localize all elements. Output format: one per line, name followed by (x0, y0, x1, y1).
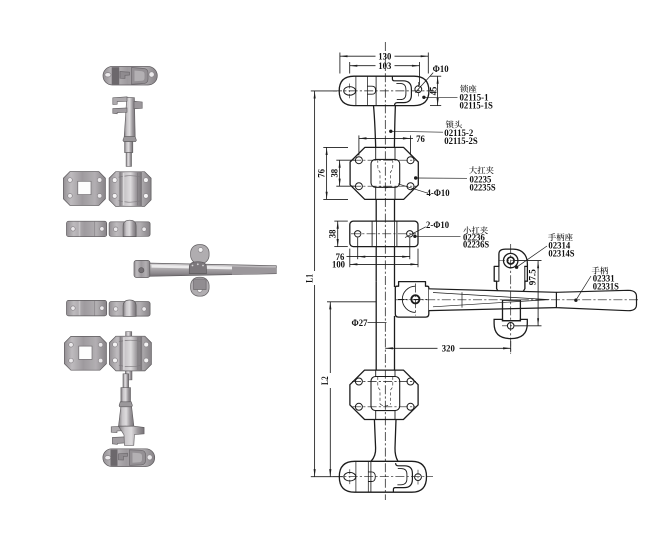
dimension 45 (429, 76, 442, 105)
big clamp plate 02235 (3D, upper left) (63, 172, 105, 206)
rod stub below lower big clamp (125, 370, 132, 380)
lock head 02115-2 (3D view, top) (113, 97, 142, 167)
dimension 130 (340, 52, 428, 74)
dimension 76 (left, clamp height) (316, 147, 348, 199)
label 4-Phi10 (398, 184, 450, 198)
svg-text:Φ27: Φ27 (352, 318, 368, 328)
svg-text:2-Φ10: 2-Φ10 (426, 220, 450, 230)
dimension L2 (320, 302, 376, 477)
centrelines (333, 91, 434, 477)
hidden lines in clamps (378, 160, 393, 406)
label Phi10 (top hole) (415, 64, 449, 93)
label lock head top (389, 120, 478, 145)
svg-text:L2: L2 (320, 376, 330, 385)
handle seat strap over shaft (503, 300, 521, 321)
mounting holes (344, 82, 422, 485)
handle 02331 with handle seat 02314 (3D view) (134, 245, 276, 297)
big clamp saddle 02235 (3D, upper right) (109, 172, 151, 207)
small clamp saddle 02236 (3D, lower right) (109, 300, 150, 316)
svg-text:130: 130 (378, 52, 391, 62)
big clamp plate 02235 (3D, lower left) (64, 336, 106, 370)
svg-text:02115-2S: 02115-2S (444, 136, 477, 146)
small clamp strap 02236 (3D, upper left) (67, 221, 107, 237)
handle shaft and grip (429, 289, 637, 311)
handle seat 02314 (front view) (494, 249, 527, 295)
dimension 100 (332, 249, 418, 270)
svg-text:100: 100 (332, 260, 345, 270)
rod centreline (384, 42, 386, 500)
label handle seat (515, 233, 575, 269)
svg-text:4-Φ10: 4-Φ10 (427, 188, 451, 198)
dimension 320 (385, 341, 510, 354)
svg-text:76: 76 (416, 134, 425, 144)
svg-text:Φ10: Φ10 (433, 64, 449, 74)
dimension 97.5 (515, 261, 542, 326)
dimension 103 (350, 61, 420, 85)
label big clamp (414, 166, 496, 192)
dimension 76 (top clamp holes) (359, 134, 425, 156)
dimension 76 (small clamp holes) (336, 238, 410, 262)
svg-text:02235S: 02235S (470, 182, 496, 192)
small clamp saddle 02236 (3D, upper right) (109, 220, 150, 236)
dimension 38 (small clamp) (328, 221, 348, 247)
label 2-Phi10 (405, 220, 450, 238)
lock seat 02115-1 (3D view, top) (103, 67, 157, 86)
rod stub above lower big clamp (126, 332, 132, 337)
svg-text:38: 38 (329, 168, 339, 177)
big clamp saddle 02235 (3D, lower right) (109, 336, 151, 371)
label Phi27 (352, 318, 387, 328)
svg-text:320: 320 (442, 344, 455, 354)
svg-text:L1: L1 (304, 274, 314, 283)
lock seat 02115-1 (3D view, bottom) (103, 449, 155, 467)
label lock seat top (422, 85, 493, 111)
lock rod assembly outline (339, 76, 429, 492)
dimension 38 (top clamp) (329, 160, 355, 186)
svg-text:02236S: 02236S (463, 240, 489, 250)
dimension L1 (304, 91, 343, 477)
svg-text:38: 38 (328, 229, 338, 238)
label handle (574, 267, 619, 302)
handle seat lower lobe (494, 319, 527, 338)
svg-text:02115-1S: 02115-1S (460, 100, 493, 110)
svg-text:76: 76 (316, 169, 326, 178)
svg-text:103: 103 (378, 61, 391, 71)
svg-text:02314S: 02314S (548, 249, 574, 259)
lock head 02115-2 (3D view, bottom) (111, 374, 144, 446)
svg-text:97.5: 97.5 (528, 269, 538, 285)
svg-text:02331S: 02331S (593, 281, 619, 291)
label small clamp (413, 226, 489, 249)
small clamp strap 02236 (3D, lower left) (67, 300, 107, 316)
handle hub on rod (395, 282, 429, 318)
